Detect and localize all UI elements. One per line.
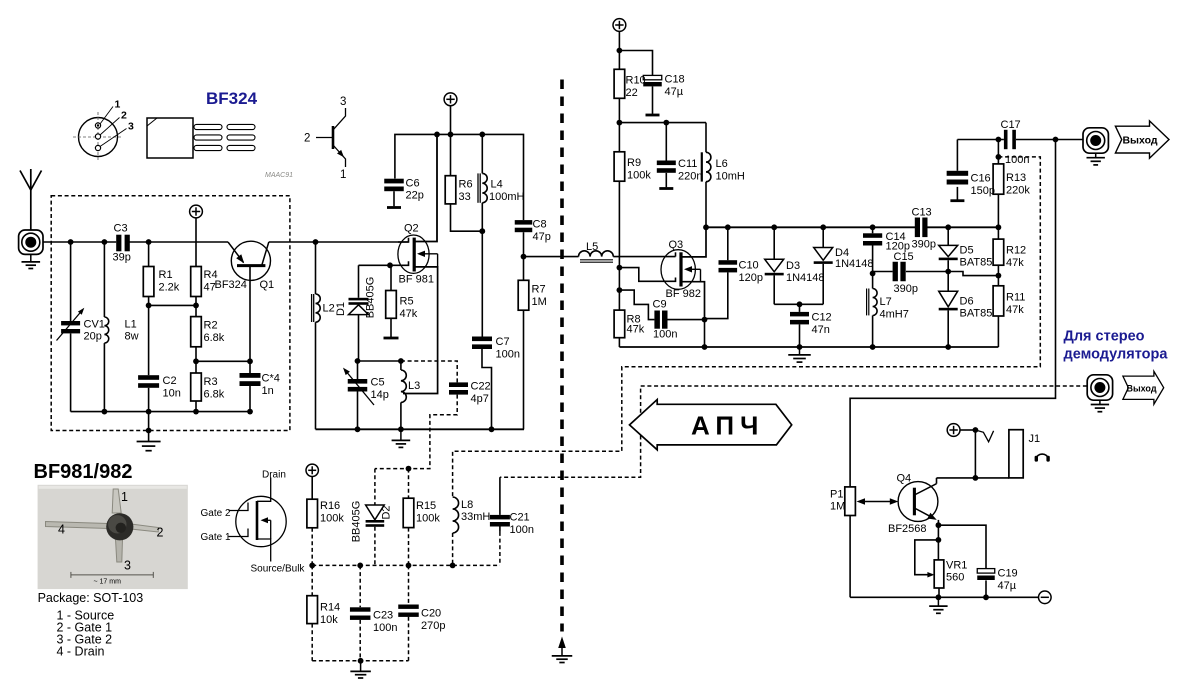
stereo output socket	[1087, 375, 1112, 400]
svg-text:R14: R14	[320, 602, 340, 614]
resistor R7	[523, 257, 525, 281]
rail right of C13	[928, 226, 999, 228]
svg-text:C16: C16	[971, 173, 991, 185]
dashed junction row of AFC network	[312, 564, 500, 566]
wire Q4 collector to J1	[937, 477, 1009, 479]
headphone jack J1	[1009, 430, 1023, 478]
ground of input stage	[148, 412, 150, 441]
variable capacitor CV1	[70, 242, 72, 321]
svg-text:L7: L7	[880, 296, 892, 308]
svg-text:2.2k: 2.2k	[159, 282, 180, 294]
svg-text:C10: C10	[739, 260, 759, 272]
resistor R10	[614, 69, 625, 98]
svg-text:Для стерео: Для стерео	[1064, 329, 1145, 345]
svg-text:АПЧ: АПЧ	[691, 411, 764, 441]
svg-text:VR1: VR1	[946, 560, 967, 572]
svg-text:Q1: Q1	[260, 279, 275, 291]
resistor R4	[195, 218, 197, 267]
svg-text:100k: 100k	[627, 170, 651, 182]
svg-text:100n: 100n	[373, 622, 397, 634]
svg-text:L5: L5	[586, 241, 598, 253]
svg-text:C13: C13	[912, 207, 932, 219]
dashed section divider	[560, 80, 564, 632]
svg-text:100n: 100n	[496, 349, 520, 361]
svg-text:47µ: 47µ	[998, 580, 1017, 592]
BF324 TO-92 case view	[147, 118, 255, 158]
svg-text:BF 981: BF 981	[399, 274, 434, 286]
svg-text:2: 2	[304, 133, 310, 145]
svg-text:C22: C22	[471, 381, 491, 393]
BF324 round package view	[73, 99, 134, 163]
svg-text:33: 33	[459, 191, 471, 203]
svg-text:22: 22	[626, 87, 638, 99]
capacitor C20	[408, 565, 410, 604]
svg-text:R5: R5	[400, 296, 414, 308]
svg-text:33mH: 33mH	[461, 511, 490, 523]
bottom row of input stage	[71, 411, 250, 413]
svg-text:BF981/982: BF981/982	[34, 461, 133, 483]
wire C3 to Q1 emitter	[129, 241, 228, 243]
resistor R14	[311, 565, 313, 595]
svg-text:390p: 390p	[912, 238, 936, 250]
svg-text:C18: C18	[665, 74, 685, 86]
svg-text:R3: R3	[204, 376, 218, 388]
photo of SOT-103 package	[38, 485, 188, 589]
supply plus of input stage	[190, 205, 203, 218]
svg-text:R13: R13	[1006, 172, 1026, 184]
supply plus of RF amplifier	[444, 93, 457, 106]
svg-text:1: 1	[115, 99, 121, 111]
inductor L6	[705, 123, 707, 153]
dashed enclosure of input stage	[51, 196, 290, 431]
svg-text:демодулятора: демодулятора	[1064, 347, 1169, 363]
svg-text:R6: R6	[459, 179, 473, 191]
output arrow banner	[1115, 121, 1169, 158]
svg-text:BB405G: BB405G	[365, 277, 377, 319]
svg-text:10n: 10n	[163, 388, 181, 400]
variable capacitor C5	[357, 361, 359, 379]
svg-text:220n: 220n	[678, 171, 702, 183]
svg-text:C19: C19	[998, 568, 1018, 580]
ground below output socket	[1095, 153, 1097, 157]
bottom rail of RF stage	[316, 428, 525, 430]
inductor L8	[453, 497, 459, 533]
ground of AFC network	[360, 661, 362, 671]
varactor diode D2 BB405G	[374, 469, 376, 505]
svg-text:390p: 390p	[894, 283, 918, 295]
electrolytic capacitor C18	[643, 75, 662, 79]
wire R10 bottom to L6	[619, 122, 706, 124]
svg-text:47k: 47k	[627, 323, 645, 335]
dashed wire L3 top to C22	[401, 361, 457, 382]
svg-text:47k: 47k	[1006, 304, 1024, 316]
svg-text:R12: R12	[1006, 245, 1026, 257]
svg-text:BAT85: BAT85	[960, 308, 993, 320]
svg-text:C17: C17	[1001, 119, 1021, 131]
ground of audio stage	[937, 597, 939, 605]
BF324 pinout transistor symbol	[316, 108, 346, 167]
electrolytic capacitor C19	[977, 569, 995, 574]
dashed bottom row of AFC network	[312, 660, 408, 662]
svg-text:Выход: Выход	[1122, 135, 1157, 147]
svg-text:~ 17 mm: ~ 17 mm	[94, 579, 122, 586]
svg-text:C15: C15	[894, 251, 914, 263]
svg-text:Package: SOT-103: Package: SOT-103	[38, 591, 144, 605]
legend dual-gate MOSFET symbol	[229, 478, 287, 562]
wire D3-D4 bottom row	[774, 303, 823, 305]
svg-text:R16: R16	[320, 500, 340, 512]
svg-text:R2: R2	[204, 320, 218, 332]
svg-text:47k: 47k	[400, 308, 418, 320]
capacitor C7	[472, 337, 492, 342]
svg-text:D3: D3	[786, 260, 800, 272]
diode D5 BAT85	[947, 227, 949, 245]
svg-text:C3: C3	[114, 223, 128, 235]
inductor L5	[524, 256, 579, 258]
audio output wire with C17	[957, 139, 1004, 141]
capacitor C*4	[249, 267, 251, 373]
ground of IF rail	[799, 347, 801, 355]
diode D6 BAT85	[947, 272, 949, 292]
svg-text:C6: C6	[406, 178, 420, 190]
svg-text:47µ: 47µ	[665, 86, 684, 98]
AFC arrow banner	[630, 400, 792, 450]
svg-text:C9: C9	[653, 298, 667, 310]
capacitor C23	[359, 565, 361, 607]
svg-text:47p: 47p	[533, 231, 551, 243]
supply V mark	[975, 430, 993, 442]
wire oscillator tank top row	[358, 360, 401, 362]
svg-text:8w: 8w	[125, 331, 139, 343]
dashed stereo tap wire	[453, 157, 1041, 497]
svg-text:MAAC91: MAAC91	[265, 172, 293, 179]
svg-text:BF 982: BF 982	[666, 288, 701, 300]
capacitor C9	[619, 290, 654, 320]
svg-text:10mH: 10mH	[716, 171, 745, 183]
svg-text:150p: 150p	[971, 185, 995, 197]
svg-text:C7: C7	[496, 336, 510, 348]
svg-text:22p: 22p	[406, 190, 424, 202]
svg-text:C2: C2	[163, 375, 177, 387]
minus supply terminal	[1039, 591, 1052, 604]
svg-text:C20: C20	[421, 608, 441, 620]
ground at divider bottom	[552, 655, 573, 657]
resistor R12	[997, 227, 999, 239]
svg-text:Gate 2: Gate 2	[201, 508, 231, 519]
svg-text:4p7: 4p7	[471, 393, 489, 405]
svg-text:Drain: Drain	[262, 470, 286, 481]
transistor Q4 BF2568	[898, 482, 938, 522]
svg-text:100n: 100n	[1005, 154, 1029, 166]
svg-text:D6: D6	[960, 296, 974, 308]
svg-text:Q3: Q3	[669, 239, 684, 251]
svg-text:1: 1	[340, 169, 346, 181]
svg-text:4 - Drain: 4 - Drain	[57, 645, 105, 659]
svg-text:6.8k: 6.8k	[204, 332, 225, 344]
svg-text:1n: 1n	[262, 385, 274, 397]
capacitor C14	[872, 227, 874, 233]
wire Q4 emitter node	[936, 522, 942, 528]
svg-text:BF324: BF324	[215, 279, 247, 291]
supply rail of RF amplifier	[395, 134, 524, 220]
svg-text:120p: 120p	[739, 272, 763, 284]
svg-text:R9: R9	[627, 157, 641, 169]
transistor Q1 BF324	[231, 241, 270, 280]
svg-text:6.8k: 6.8k	[204, 389, 225, 401]
varactor diode D1 BB405G	[358, 265, 360, 298]
svg-text:1M: 1M	[532, 296, 547, 308]
resistor R1	[148, 242, 150, 267]
svg-text:Q2: Q2	[404, 223, 419, 235]
resistor R16	[311, 477, 313, 500]
audio stage bottom rail	[850, 596, 1039, 598]
capacitor C6	[384, 179, 404, 184]
diode D3 1N4148	[773, 227, 775, 259]
wire Q3 source node to ground rail	[704, 319, 706, 347]
demodulator top rail	[706, 226, 916, 228]
transistor Q2 BF981	[415, 134, 437, 241]
inductor L7	[872, 273, 874, 288]
inductor L3	[400, 361, 402, 370]
wire R2 bottom row to C*4	[196, 360, 250, 362]
inductor L2	[315, 242, 317, 294]
wire plus to C18	[619, 51, 652, 76]
capacitor C2	[138, 375, 159, 380]
audio line from C17 junction to P1	[850, 140, 1055, 487]
dashed wire C22 to varactor node	[375, 395, 457, 469]
svg-text:R15: R15	[416, 500, 436, 512]
capacitor C12	[799, 304, 801, 312]
svg-text:C5: C5	[371, 377, 385, 389]
svg-text:1N4148: 1N4148	[786, 272, 825, 284]
dashed wire to stereo output	[500, 386, 1087, 477]
svg-text:L6: L6	[716, 158, 728, 170]
wire detector row to R12	[948, 272, 998, 276]
capacitor C13	[915, 218, 920, 238]
svg-text:Выход: Выход	[1126, 383, 1156, 393]
svg-text:BF2568: BF2568	[888, 523, 927, 535]
svg-text:C23: C23	[373, 610, 393, 622]
svg-text:47k: 47k	[1006, 257, 1024, 269]
antenna socket	[19, 230, 43, 254]
svg-text:P1: P1	[830, 489, 843, 501]
svg-text:BF324: BF324	[206, 89, 258, 108]
svg-text:100k: 100k	[320, 513, 344, 525]
svg-text:2: 2	[157, 526, 164, 540]
svg-text:Gate 1: Gate 1	[201, 532, 231, 543]
svg-text:L8: L8	[461, 499, 473, 511]
capacitor C21	[499, 477, 501, 515]
capacitor C10	[727, 227, 729, 260]
potentiometer P1	[845, 487, 856, 516]
wire Q2 gate1 bias	[359, 264, 391, 266]
resistor R3	[191, 373, 202, 401]
svg-text:1N4148: 1N4148	[835, 258, 874, 270]
svg-text:3: 3	[124, 559, 131, 573]
diode D4 1N4148	[822, 227, 824, 247]
svg-text:20p: 20p	[84, 331, 102, 343]
capacitor C11	[665, 123, 667, 161]
svg-text:Q4: Q4	[897, 473, 912, 485]
svg-text:J1: J1	[1029, 433, 1041, 445]
svg-text:1M: 1M	[830, 501, 845, 513]
resistor R2	[195, 305, 197, 316]
svg-text:L4: L4	[491, 179, 503, 191]
svg-text:100n: 100n	[510, 524, 534, 536]
P1 wiper arrow	[860, 501, 895, 503]
supply plus of AFC network	[306, 464, 318, 476]
supply plus of audio stage	[947, 424, 960, 437]
svg-text:D2: D2	[381, 505, 393, 519]
svg-text:D1: D1	[335, 302, 347, 316]
antenna	[20, 169, 42, 231]
svg-text:100mH: 100mH	[489, 191, 525, 203]
headphone icon	[1036, 454, 1049, 459]
svg-text:220k: 220k	[1006, 185, 1030, 197]
stereo output arrow banner	[1123, 371, 1164, 404]
svg-text:D5: D5	[960, 245, 974, 257]
capacitor C8	[515, 220, 533, 225]
svg-text:BAT85: BAT85	[960, 257, 993, 269]
capacitor C22	[449, 382, 468, 387]
capacitor C15	[873, 271, 893, 273]
wire R1-R4 junction row	[149, 304, 196, 306]
svg-text:L2: L2	[323, 303, 335, 315]
svg-text:2: 2	[121, 110, 127, 122]
svg-text:10k: 10k	[320, 614, 338, 626]
svg-text:14p: 14p	[371, 389, 389, 401]
IF ground rail	[619, 346, 998, 348]
arrow up at divider bottom	[558, 637, 566, 649]
svg-text:270p: 270p	[421, 620, 445, 632]
svg-text:47n: 47n	[812, 324, 830, 336]
svg-text:L3: L3	[408, 380, 420, 392]
svg-text:C11: C11	[678, 158, 697, 170]
inductor L1	[103, 242, 105, 317]
svg-text:C*4: C*4	[262, 373, 280, 385]
capacitor C17	[1004, 130, 1008, 149]
svg-text:R7: R7	[532, 284, 546, 296]
svg-text:C8: C8	[533, 219, 547, 231]
svg-text:C12: C12	[812, 312, 832, 324]
trimmer VR1	[934, 560, 944, 588]
svg-text:4mH7: 4mH7	[880, 309, 909, 321]
capacitor C16	[956, 140, 958, 171]
svg-text:3: 3	[340, 96, 346, 108]
svg-text:R1: R1	[159, 269, 173, 281]
svg-text:BB405G: BB405G	[351, 501, 363, 543]
svg-text:R10: R10	[626, 75, 646, 87]
supply plus of IF section	[613, 19, 626, 32]
resistor R9	[614, 152, 625, 181]
capacitor C3	[116, 235, 121, 252]
inductor L4	[481, 134, 483, 173]
svg-text:R11: R11	[1006, 292, 1025, 304]
resistor R6	[445, 176, 456, 204]
svg-text:CV1: CV1	[84, 319, 105, 331]
svg-text:3: 3	[128, 121, 134, 133]
ground below stereo socket	[1099, 400, 1101, 404]
resistor R5	[390, 265, 392, 290]
svg-text:100k: 100k	[416, 513, 440, 525]
resistor R15	[408, 469, 410, 499]
svg-text:Source/Bulk: Source/Bulk	[251, 563, 306, 574]
svg-text:100n: 100n	[653, 329, 677, 341]
output socket	[1083, 128, 1108, 153]
resistor R11	[997, 276, 999, 286]
svg-text:C21: C21	[510, 512, 530, 524]
ground below antenna socket	[30, 255, 32, 262]
svg-text:4: 4	[58, 523, 65, 537]
svg-text:39p: 39p	[113, 252, 131, 264]
wire Q1 collector out	[269, 241, 409, 243]
resistor R8	[614, 310, 625, 338]
svg-text:1: 1	[121, 490, 128, 504]
wire antenna to C3	[43, 241, 116, 243]
svg-text:560: 560	[946, 572, 964, 584]
ground of RF stage	[400, 429, 402, 440]
resistor R13	[997, 140, 999, 164]
svg-text:L1: L1	[125, 319, 137, 331]
transistor Q3 BF982	[661, 250, 695, 290]
